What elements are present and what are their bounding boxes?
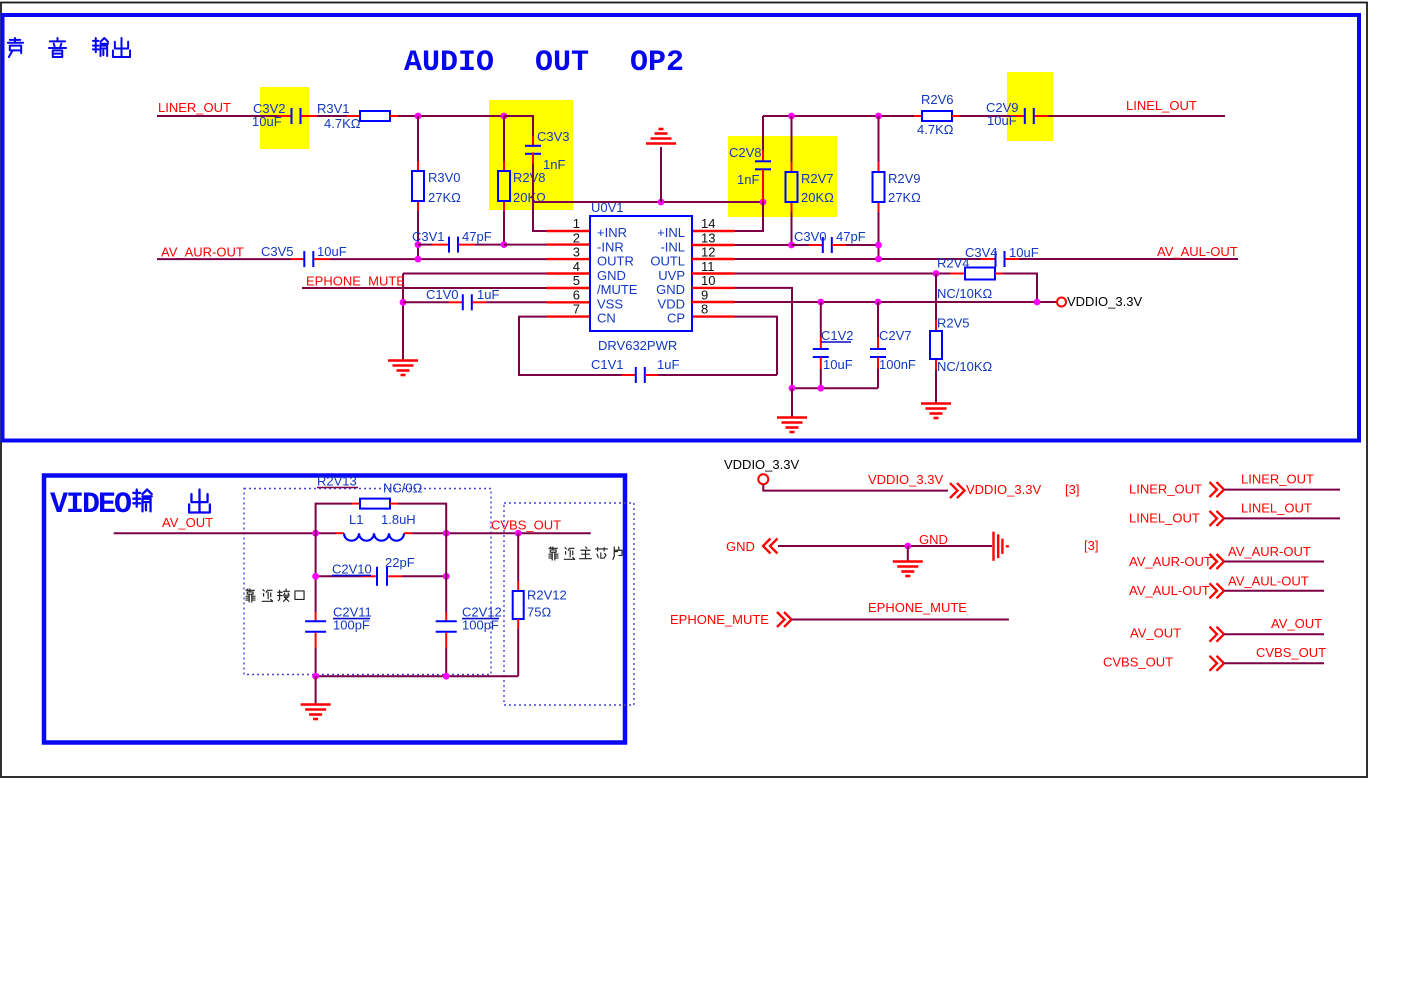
capacitor C3V2 10uF <box>291 108 293 124</box>
ground (R2V5) <box>921 404 951 419</box>
svg-text:4.7KΩ: 4.7KΩ <box>917 122 954 137</box>
wire R3V1 to node <box>390 115 398 117</box>
svg-text:13: 13 <box>701 230 715 245</box>
svg-text:CN: CN <box>597 311 616 326</box>
capacitor C3V5 10uF <box>303 251 305 267</box>
wire C3V2 to R3V1 <box>301 115 317 117</box>
port chevron AV_AUR-OUT <box>1210 554 1218 569</box>
svg-text:R2V6: R2V6 <box>921 92 954 107</box>
svg-text:11: 11 <box>701 259 715 274</box>
capacitor C2V8 1nF <box>762 116 764 150</box>
svg-text:C1V1: C1V1 <box>591 357 624 372</box>
capacitor C2V9 10uF <box>1024 108 1026 124</box>
wire pin4 down to ground <box>402 274 404 361</box>
node bias rail / ground <box>658 199 665 206</box>
highlight C2V8 R2V7 <box>728 136 837 217</box>
right branch vertical wire <box>445 533 447 612</box>
port chevron VDDIO_3.3V <box>950 483 958 498</box>
wire R2V4 to VDD rail <box>1003 274 1037 303</box>
svg-text:C1V0: C1V0 <box>426 287 459 302</box>
node R2V7 bottom <box>788 242 795 249</box>
capacitor C3V4 10uF <box>995 251 997 267</box>
svg-text:AUDIO: AUDIO <box>404 46 494 80</box>
svg-text:EPHONE_MUTE: EPHONE_MUTE <box>670 612 769 627</box>
video ground rail wire <box>316 675 519 677</box>
wire C3V3 to bias rail <box>532 153 534 165</box>
svg-text:10uF: 10uF <box>987 113 1017 128</box>
svg-text:CP: CP <box>667 311 685 326</box>
svg-text:LINER_OUT: LINER_OUT <box>1129 482 1202 497</box>
svg-text:GND: GND <box>656 282 685 297</box>
resistor R2V4 NC/10K <box>950 273 965 275</box>
svg-text:4: 4 <box>573 259 580 274</box>
svg-text:1nF: 1nF <box>737 172 759 187</box>
wire LINEL_OUT <box>1224 517 1340 519</box>
svg-text:NC/10KΩ: NC/10KΩ <box>937 286 993 301</box>
capacitor C2V11 100pF <box>315 612 317 621</box>
svg-text:100nF: 100nF <box>879 357 916 372</box>
capacitor C1V1 1uF <box>622 374 636 376</box>
svg-text:OUT: OUT <box>535 46 589 80</box>
svg-text:10uF: 10uF <box>317 244 347 259</box>
svg-text:C3V1: C3V1 <box>412 229 445 244</box>
wire L1 to CVBS_OUT <box>404 532 412 534</box>
highlight C2V9 <box>1007 72 1053 141</box>
wire LINER_OUT <box>1224 489 1340 491</box>
wire pin13 -INL <box>692 244 735 246</box>
svg-text:1: 1 <box>573 216 580 231</box>
svg-text:AV_AUR-OUT: AV_AUR-OUT <box>1129 554 1212 569</box>
sheet border <box>1 3 1367 778</box>
node junction at R3V1 output <box>415 113 422 120</box>
wire pin10 GND <box>692 287 735 289</box>
svg-text:C2V8: C2V8 <box>729 145 762 160</box>
node ground rail left <box>789 385 796 392</box>
svg-text:5: 5 <box>573 273 580 288</box>
port chevron LINER_OUT <box>1210 482 1218 497</box>
svg-text:CVBS_OUT: CVBS_OUT <box>1103 655 1173 670</box>
ground (GND net) <box>907 546 909 561</box>
svg-text:NC/10KΩ: NC/10KΩ <box>937 359 993 374</box>
port chevron CVBS_OUT <box>1210 656 1218 671</box>
node L1 right <box>443 530 450 537</box>
dotted region near connector <box>244 489 491 675</box>
capacitor C3V0 47pF <box>792 244 810 246</box>
node OUTL feedback <box>875 256 882 263</box>
node GND <box>904 543 911 550</box>
svg-text:VDD: VDD <box>658 296 685 311</box>
wire C3V4 to AV_AUL-OUT <box>1005 258 1019 260</box>
svg-text:R2V7: R2V7 <box>801 171 834 186</box>
highlight C3V3 R2V8 <box>489 100 573 210</box>
svg-text:VIDEO: VIDEO <box>50 488 131 522</box>
svg-text:4.7KΩ: 4.7KΩ <box>324 116 361 131</box>
svg-text:R2V12: R2V12 <box>527 588 567 603</box>
svg-text:20KΩ: 20KΩ <box>801 190 834 205</box>
svg-text:CVBS_OUT: CVBS_OUT <box>491 518 561 533</box>
port chevron EPHONE_MUTE <box>777 612 785 627</box>
svg-text:GND: GND <box>597 268 626 283</box>
resistor R3V0 27K <box>412 171 424 201</box>
wire pin7 CN loop <box>547 315 591 317</box>
note kao jin zhu xin pian (near main chip) <box>549 547 558 560</box>
wire vertical through R2V9 <box>878 116 880 162</box>
node R2V9 top <box>875 113 882 120</box>
svg-text:L1: L1 <box>349 512 363 527</box>
svg-text:VDDIO_3.3V: VDDIO_3.3V <box>1067 294 1142 309</box>
node R2V12 top <box>515 530 522 537</box>
video section frame <box>44 476 625 743</box>
wire pin5 /MUTE <box>302 287 547 289</box>
svg-text:12: 12 <box>701 245 715 260</box>
svg-text:10uF: 10uF <box>1009 245 1039 260</box>
svg-text:C3V0: C3V0 <box>794 229 827 244</box>
ground (pin4/VSS) <box>388 361 418 376</box>
wire AV_AUL-OUT <box>1224 590 1324 592</box>
power port VDDIO_3.3V <box>1057 298 1066 307</box>
svg-text:R3V0: R3V0 <box>428 170 461 185</box>
svg-text:2: 2 <box>573 230 580 245</box>
node OUTR feedback <box>415 256 422 263</box>
svg-text:R2V8: R2V8 <box>513 170 546 185</box>
svg-text:C2V7: C2V7 <box>879 328 912 343</box>
node C3V1 left <box>415 241 422 248</box>
note kao jin jie kou (near connector) <box>246 589 255 602</box>
earth symbol <box>994 532 1009 561</box>
svg-text:LINER_OUT: LINER_OUT <box>1241 472 1314 487</box>
wire AV_AUR-OUT to C3V5 <box>157 258 291 260</box>
svg-text:CVBS_OUT: CVBS_OUT <box>1256 645 1326 660</box>
resistor R2V8 20K <box>498 171 510 201</box>
port chevron AV_OUT <box>1210 627 1218 642</box>
node video ground right <box>443 673 450 680</box>
svg-text:LINER_OUT: LINER_OUT <box>158 100 231 115</box>
svg-text:AV_AUL-OUT: AV_AUL-OUT <box>1228 574 1309 589</box>
wire to C3V3 <box>504 116 533 141</box>
svg-text:AV_OUT: AV_OUT <box>1130 626 1181 641</box>
svg-text:10: 10 <box>701 273 715 288</box>
port chevron AV_AUL-OUT <box>1210 583 1218 598</box>
wire R2V6 to C2V9 <box>960 115 1010 117</box>
svg-text:VDDIO_3.3V: VDDIO_3.3V <box>966 482 1041 497</box>
svg-text:R2V9: R2V9 <box>888 171 921 186</box>
wire pin12 OUTL to AV_AUL-OUT <box>692 258 735 260</box>
wire AV_OUT main <box>114 532 336 534</box>
svg-text:GND: GND <box>726 539 755 554</box>
svg-text:/MUTE: /MUTE <box>597 282 638 297</box>
svg-text:+INL: +INL <box>657 225 685 240</box>
svg-text:-INR: -INR <box>597 239 624 254</box>
node R2V4 to rail <box>1034 299 1041 306</box>
node bias rail right <box>760 199 767 206</box>
node junction top of R2V8 <box>501 113 508 120</box>
svg-text:75Ω: 75Ω <box>527 605 551 620</box>
svg-text:[3]: [3] <box>1084 538 1098 553</box>
svg-text:C1V2: C1V2 <box>821 328 854 343</box>
svg-text:AV_OUT: AV_OUT <box>162 515 213 530</box>
svg-text:10uF: 10uF <box>252 114 282 129</box>
wire C2V9 to LINEL_OUT <box>1035 115 1049 117</box>
svg-text:R3V1: R3V1 <box>317 101 350 116</box>
wire vertical through R2V7 <box>791 116 793 162</box>
svg-text:8: 8 <box>701 302 708 317</box>
svg-text:3: 3 <box>573 245 580 260</box>
svg-text:VSS: VSS <box>597 296 623 311</box>
title sheng yin shu chu (audio out, Chinese) <box>8 38 23 57</box>
svg-text:6: 6 <box>573 287 580 302</box>
svg-text:100pF: 100pF <box>333 618 370 633</box>
capacitor C3V1 47pF <box>418 244 432 246</box>
svg-text:1nF: 1nF <box>543 157 565 172</box>
wire pin11 UVP <box>692 272 735 274</box>
svg-text:UVP: UVP <box>658 268 685 283</box>
svg-text:+INR: +INR <box>597 225 627 240</box>
svg-text:AV_AUL-OUT: AV_AUL-OUT <box>1129 583 1210 598</box>
svg-text:U0V1: U0V1 <box>591 200 624 215</box>
svg-text:-INL: -INL <box>660 239 685 254</box>
node video ground left <box>312 673 319 680</box>
wire pin2 -INR <box>504 244 547 246</box>
svg-text:C2V10: C2V10 <box>332 562 372 577</box>
highlight C3V2 <box>260 87 309 149</box>
wire pin9 VDD rail <box>692 301 735 303</box>
wire node to pin1 +INR <box>533 202 547 231</box>
svg-text:AV_AUR-OUT: AV_AUR-OUT <box>1228 544 1311 559</box>
node C1V2 top <box>817 299 824 306</box>
right top rail wire <box>763 115 914 117</box>
svg-text:R2V13: R2V13 <box>317 474 357 489</box>
wire pin4 GND <box>403 273 547 275</box>
svg-text:AV_AUR-OUT: AV_AUR-OUT <box>161 245 244 260</box>
svg-text:10uF: 10uF <box>823 357 853 372</box>
node R2V7 top <box>788 113 795 120</box>
node C2V7 top <box>875 299 882 306</box>
svg-text:LINEL_OUT: LINEL_OUT <box>1129 511 1200 526</box>
svg-text:EPHONE_MUTE: EPHONE_MUTE <box>306 274 405 289</box>
svg-text:C3V4: C3V4 <box>965 245 998 260</box>
resistor R2V9 27K <box>873 172 885 202</box>
node VSS/GND join <box>400 299 407 306</box>
svg-text:GND: GND <box>919 532 948 547</box>
wire EPHONE_MUTE <box>792 619 1009 621</box>
node C2V10 left <box>312 573 319 580</box>
wire C3V5 to pin3 OUTR <box>314 258 330 260</box>
ground (video) <box>315 676 317 704</box>
node C3V1 right / R2V8 bottom <box>501 241 508 248</box>
svg-text:VDDIO_3.3V: VDDIO_3.3V <box>724 457 799 472</box>
inductor L1 1.8uH <box>344 533 404 541</box>
resistor R2V6 4.7K <box>914 115 922 117</box>
wire C1V1 to pin8 CP <box>658 374 777 376</box>
resistor R2V12 75ohm <box>517 533 519 581</box>
node ground rail C1V2 <box>817 385 824 392</box>
svg-text:LINEL_OUT: LINEL_OUT <box>1241 501 1312 516</box>
capacitor C2V7 100nF <box>877 302 879 337</box>
wire node to pin14 +INL <box>735 202 764 231</box>
wire LINER_OUT to C3V2 <box>157 115 278 117</box>
resistor R2V13 NC/0ohm bypass <box>316 504 352 534</box>
capacitor C2V10 22pF <box>316 575 361 577</box>
wire CVBS_OUT <box>1224 662 1324 664</box>
wire VDDIO_3.3V <box>763 484 948 490</box>
wire GND <box>778 545 992 547</box>
svg-text:LINEL_OUT: LINEL_OUT <box>1126 98 1197 113</box>
node R2V9 bottom <box>875 242 882 249</box>
svg-text:7: 7 <box>573 302 580 317</box>
svg-text:22pF: 22pF <box>385 555 415 570</box>
svg-text:OUTR: OUTR <box>597 254 634 269</box>
svg-text:DRV632PWR: DRV632PWR <box>598 338 677 353</box>
wire AV_OUT <box>1224 633 1324 635</box>
capacitor C3V3 1nF <box>525 145 541 147</box>
svg-text:[3]: [3] <box>1065 482 1079 497</box>
resistor R3V1 4.7K <box>360 111 390 121</box>
svg-text:14: 14 <box>701 216 715 231</box>
svg-text:AV_AUL-OUT: AV_AUL-OUT <box>1157 244 1238 259</box>
wire vertical through R3V0 <box>417 116 419 161</box>
svg-text:OP2: OP2 <box>630 46 684 80</box>
wire AV_AUR-OUT <box>1224 561 1324 563</box>
audio section frame <box>3 15 1360 441</box>
svg-text:R2V4: R2V4 <box>937 256 970 271</box>
svg-text:9: 9 <box>701 287 708 302</box>
svg-text:R2V5: R2V5 <box>937 316 970 331</box>
svg-text:OUTL: OUTL <box>650 254 685 269</box>
node UVP branch <box>933 270 940 277</box>
svg-text:EPHONE_MUTE: EPHONE_MUTE <box>868 600 967 615</box>
capacitor C2V12 100pF <box>445 612 447 621</box>
svg-text:1.8uH: 1.8uH <box>381 512 416 527</box>
ground (bias, inverted) <box>660 147 662 202</box>
dotted region near main chip <box>504 503 634 705</box>
svg-text:VDDIO_3.3V: VDDIO_3.3V <box>868 472 943 487</box>
resistor R2V5 NC/10K <box>930 331 942 359</box>
node L1 left <box>312 530 319 537</box>
wire R2V5 branch <box>935 274 937 321</box>
svg-text:AV_OUT: AV_OUT <box>1271 616 1322 631</box>
ground (decoupling) <box>791 388 793 417</box>
left branch vertical wire <box>315 533 317 612</box>
svg-text:C3V3: C3V3 <box>537 129 570 144</box>
svg-text:100pF: 100pF <box>462 618 499 633</box>
svg-text:NC/0Ω: NC/0Ω <box>383 481 423 496</box>
svg-text:47pF: 47pF <box>836 229 866 244</box>
port chevron GND <box>763 539 771 554</box>
svg-text:27KΩ: 27KΩ <box>888 190 921 205</box>
capacitor C1V2 10uF <box>820 302 822 337</box>
svg-text:27KΩ: 27KΩ <box>428 190 461 205</box>
resistor R2V7 20K <box>786 172 798 202</box>
wire vertical through R2V8 <box>503 116 505 161</box>
node C2V10 right <box>443 573 450 580</box>
port chevron LINEL_OUT <box>1210 511 1218 526</box>
bias rail wire <box>533 201 763 203</box>
op-amp U0V1 DRV632PWR <box>590 216 692 331</box>
svg-text:C3V5: C3V5 <box>261 244 294 259</box>
svg-text:1uF: 1uF <box>657 357 679 372</box>
wire decoupling ground rail <box>792 387 878 389</box>
svg-text:47pF: 47pF <box>462 229 492 244</box>
svg-text:1uF: 1uF <box>477 287 499 302</box>
capacitor C1V0 1uF <box>403 301 449 303</box>
